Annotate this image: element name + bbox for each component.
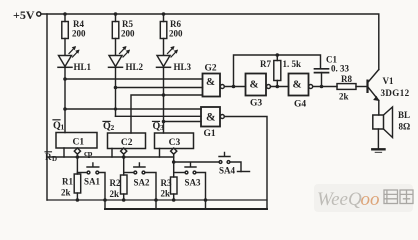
svg-text:SA2: SA2 bbox=[134, 178, 151, 188]
node SA4 tap bbox=[172, 160, 176, 164]
transistor V1 bbox=[366, 70, 379, 116]
label cp bbox=[84, 148, 93, 158]
node R2 bottom bbox=[122, 198, 126, 202]
svg-text:oo: oo bbox=[361, 189, 380, 210]
svg-text:G4: G4 bbox=[294, 100, 306, 110]
svg-text:1: 1 bbox=[61, 123, 65, 132]
nand gate G1 bbox=[201, 107, 224, 127]
label Q1 bbox=[53, 121, 65, 132]
svg-text:2k: 2k bbox=[339, 92, 349, 102]
svg-text:R4: R4 bbox=[73, 19, 84, 29]
wire G1 input 3 bbox=[164, 121, 202, 123]
switch SA1 bbox=[77, 163, 105, 209]
svg-text:200: 200 bbox=[72, 29, 86, 39]
pin C2 RD bbox=[111, 149, 113, 158]
node R5 top bbox=[114, 12, 118, 16]
node R7 top bbox=[276, 53, 280, 57]
node col3/G1in3 bbox=[162, 120, 166, 124]
svg-text:3: 3 bbox=[160, 123, 164, 132]
flip-flop C3 bbox=[155, 133, 194, 149]
watermark bbox=[314, 184, 413, 212]
LED HL3 bbox=[157, 46, 179, 67]
clock bubble C2 bbox=[121, 148, 127, 154]
svg-text:R5: R5 bbox=[122, 19, 133, 29]
svg-text:2k: 2k bbox=[110, 189, 120, 199]
svg-text:1. 5k: 1. 5k bbox=[283, 59, 302, 69]
wire bottom rail B bbox=[105, 208, 267, 210]
node C1 bottom bbox=[320, 85, 324, 89]
svg-text:HL3: HL3 bbox=[174, 62, 192, 72]
svg-text:3DG12: 3DG12 bbox=[381, 88, 410, 98]
wire RD/cp bus bbox=[47, 156, 174, 158]
switch SA3 bbox=[174, 163, 206, 209]
wire G1 input 2 bbox=[116, 115, 202, 117]
svg-text:G2: G2 bbox=[205, 64, 217, 74]
svg-text:&: & bbox=[206, 112, 216, 124]
wire G1 input 1 bbox=[65, 108, 201, 110]
svg-text:SA3: SA3 bbox=[185, 178, 202, 188]
svg-text:D: D bbox=[52, 155, 57, 163]
svg-text:R1: R1 bbox=[62, 177, 73, 187]
wire G2 input 3 / C2 Q pin bbox=[131, 95, 203, 133]
svg-text:BL: BL bbox=[398, 110, 410, 120]
nand gate G2 bbox=[203, 74, 225, 97]
node R4 top bbox=[63, 12, 67, 16]
wire G1 output bbox=[224, 117, 267, 210]
pin C3 RD bbox=[159, 149, 161, 158]
node R6 top bbox=[162, 12, 166, 16]
svg-text:HL1: HL1 bbox=[74, 62, 92, 72]
label Q2 bbox=[103, 121, 115, 132]
svg-text:G1: G1 bbox=[204, 129, 216, 139]
wire G3 out to G4 bbox=[271, 86, 289, 88]
wire column Q1 bbox=[64, 67, 66, 132]
speaker BL bbox=[373, 107, 393, 138]
resistor R7 bbox=[274, 55, 281, 87]
svg-text:R7: R7 bbox=[260, 59, 271, 69]
node col2/G2in2 bbox=[114, 86, 118, 90]
node bus col1 bbox=[76, 155, 80, 159]
resistor R1 bbox=[74, 174, 81, 200]
svg-text:&: & bbox=[250, 79, 259, 91]
flip-flop C2 bbox=[108, 133, 146, 149]
svg-text:R8: R8 bbox=[341, 74, 352, 84]
switch SA2 bbox=[124, 163, 156, 209]
node feedback tap bbox=[232, 85, 236, 89]
capacitor C1 bbox=[315, 69, 329, 87]
node col2 crossing bbox=[114, 107, 117, 110]
wire G2 out to G3 bbox=[224, 86, 245, 88]
svg-text:2: 2 bbox=[111, 123, 115, 132]
svg-text:R6: R6 bbox=[170, 19, 181, 29]
svg-text:SA1: SA1 bbox=[84, 177, 101, 187]
label Q3 bbox=[153, 121, 165, 132]
svg-text:R2: R2 bbox=[110, 178, 121, 188]
flip-flop C1 bbox=[56, 133, 97, 149]
nand gate G3 bbox=[246, 74, 271, 96]
resistor R6 bbox=[160, 14, 167, 56]
svg-text:8Ω: 8Ω bbox=[399, 122, 411, 132]
+5V label bbox=[13, 8, 35, 22]
wire column Q3 bbox=[163, 67, 165, 133]
wire left rail bbox=[46, 14, 48, 200]
svg-text:V1: V1 bbox=[383, 76, 394, 86]
svg-text:200: 200 bbox=[169, 29, 183, 39]
nand gate G4 bbox=[289, 74, 313, 96]
svg-text:R3: R3 bbox=[161, 178, 172, 188]
LED HL2 bbox=[109, 46, 131, 67]
wire feedback top bbox=[234, 55, 321, 87]
clock bubble C3 bbox=[171, 148, 177, 154]
resistor R2 bbox=[121, 175, 128, 200]
svg-text:2k: 2k bbox=[161, 189, 171, 199]
pin C1 RD bbox=[63, 148, 65, 157]
wire G2 input 1 bbox=[65, 78, 203, 80]
resistor R4 bbox=[62, 14, 69, 56]
resistor R5 bbox=[112, 14, 119, 56]
resistor R8 bbox=[337, 84, 366, 90]
svg-text:WeeQ: WeeQ bbox=[317, 189, 362, 210]
svg-text:cp: cp bbox=[84, 148, 93, 158]
svg-text:0. 33: 0. 33 bbox=[331, 64, 350, 74]
svg-text:HL2: HL2 bbox=[126, 62, 144, 72]
svg-text:&: & bbox=[293, 79, 302, 91]
wire G2 input 2 bbox=[116, 87, 203, 89]
switch SA4 bbox=[174, 153, 250, 172]
wire top rail bbox=[41, 14, 379, 70]
resistor R3 bbox=[171, 177, 178, 200]
wire clock col2 bbox=[123, 154, 125, 175]
node R1 bottom bbox=[76, 198, 80, 202]
svg-text:C1: C1 bbox=[73, 138, 85, 148]
svg-text:SA4: SA4 bbox=[219, 166, 236, 176]
node col1/G2in1 bbox=[63, 77, 67, 81]
node R7 bottom bbox=[276, 85, 280, 89]
node col3/G2in3 bbox=[162, 93, 166, 97]
svg-text:C3: C3 bbox=[169, 138, 181, 148]
label RD bbox=[45, 152, 57, 163]
wire clock col3 bbox=[173, 154, 175, 177]
svg-text:200: 200 bbox=[121, 29, 135, 39]
svg-text:+5V: +5V bbox=[13, 8, 35, 22]
svg-text:&: & bbox=[206, 76, 215, 88]
svg-text:R: R bbox=[45, 152, 52, 162]
node bus col2 bbox=[122, 155, 126, 159]
svg-text:2k: 2k bbox=[61, 188, 71, 198]
node col1/G1in1 bbox=[63, 107, 67, 111]
svg-text:G3: G3 bbox=[250, 99, 262, 109]
wire clock col1 bbox=[76, 154, 78, 174]
wire bottom rail A bbox=[47, 199, 267, 201]
node R3 bottom bbox=[172, 198, 176, 202]
ground bbox=[372, 129, 384, 152]
node SA3 bottom bbox=[204, 198, 208, 202]
+5V terminal bbox=[37, 12, 41, 16]
clock bubble C1 bbox=[74, 148, 80, 154]
svg-text:C2: C2 bbox=[121, 138, 133, 148]
wire column Q2 bbox=[115, 67, 117, 116]
wire G4 out bbox=[313, 86, 337, 88]
node SA2 bottom bbox=[154, 198, 158, 202]
node SA1 bottom bbox=[103, 198, 107, 202]
LED HL1 bbox=[58, 46, 80, 67]
